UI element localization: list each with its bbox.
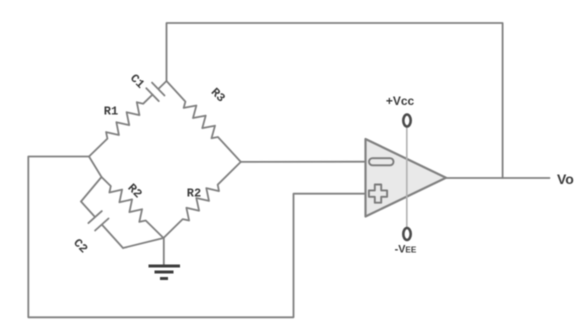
svg-text:R1: R1 — [104, 105, 118, 119]
wire bridge left node to non-inverting input — [28, 157, 365, 318]
wire bridge right node to inverting input — [241, 161, 366, 163]
capacitor C2 branch — [81, 177, 102, 202]
wire bottom node to ground — [163, 238, 165, 265]
wire feedback from output to bridge top node — [167, 23, 503, 178]
svg-text:-VEE: -VEE — [395, 244, 417, 256]
svg-text:R3: R3 — [208, 85, 228, 105]
wire supply rail through op-amp — [406, 127, 408, 229]
resistor R3 — [167, 81, 241, 162]
svg-text:+Vcc: +Vcc — [386, 94, 415, 108]
op-amp non-inverting input symbol — [369, 185, 387, 203]
op-amp inverting input symbol — [369, 158, 394, 165]
op-amp U1 — [366, 139, 447, 217]
svg-text:R2: R2 — [125, 181, 145, 201]
wire op-amp output to Vo — [446, 177, 550, 179]
wire left node to R2/C2 junction — [89, 157, 102, 178]
svg-text:Vo: Vo — [557, 171, 574, 187]
resistor R2 (left, parallel with C2) — [102, 177, 164, 238]
capacitor C1 — [146, 81, 166, 101]
-Vee terminal — [403, 228, 410, 240]
resistor R2 (right, B to R) — [164, 162, 241, 238]
svg-text:C2: C2 — [70, 236, 90, 256]
resistor R1 — [89, 95, 153, 157]
ground — [149, 266, 181, 279]
+Vcc terminal — [403, 115, 410, 127]
svg-text:C1: C1 — [127, 71, 147, 91]
svg-text:R2: R2 — [187, 187, 201, 201]
